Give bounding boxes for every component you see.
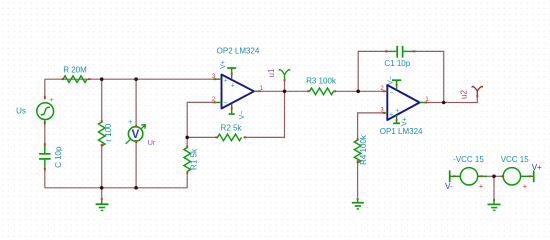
wire OP1 output [426,96,477,103]
svg-text:R4 100k: R4 100k [359,134,368,165]
wire top rail [45,78,215,80]
svg-text:V-: V- [445,182,453,191]
svg-text:−: − [223,100,227,107]
svg-text:V: V [132,129,140,141]
node junction OP2 output [283,90,287,94]
wire R4 to ground [357,161,359,198]
wire VCC rail [487,176,500,198]
probe u2 (output) [459,86,482,99]
wire OP2 output to R3 [260,90,308,92]
svg-text:Ur: Ur [148,138,156,147]
node junction top rail 1 [100,77,104,81]
svg-text:V+: V+ [532,163,542,172]
svg-text:C1 10p: C1 10p [384,59,410,68]
svg-text:-VCC 15: -VCC 15 [453,155,484,164]
svg-text:+: + [389,111,393,118]
wire ground A stem [101,188,103,199]
wire voltmeter branch [135,79,137,188]
source Us (sine source) [16,95,54,125]
svg-text:R1 5k: R1 5k [190,148,199,170]
op-amp OP2 V- power pin [229,104,246,120]
svg-text:V−: V− [239,111,246,120]
wire R3 to OP1 [334,90,383,92]
resistor R2 5k [215,124,246,141]
node junction R1/R2 [185,136,189,140]
capacitor C 10p [39,143,63,170]
svg-text:u1: u1 [267,68,276,77]
op-amp OP1 V+ power pin [393,115,408,126]
wire R2 feedback [187,91,284,137]
op-amp OP2 V+ power pin [220,60,236,78]
resistor r 100 [98,120,113,146]
ground VCC [488,199,501,211]
wire OP1 + input to R4 [358,113,384,139]
svg-text:R3 100k: R3 100k [306,77,337,86]
svg-text:+: + [128,117,133,126]
svg-text:+: + [223,78,227,85]
svg-text:+: + [523,182,528,191]
voltmeter Ur [126,117,156,147]
wire u1 probe stem [284,80,286,92]
source -VCC 15 [445,155,487,191]
node junction VCC middle [492,175,496,179]
capacitor C1 10p [384,46,415,68]
wire left limb [44,79,46,188]
ground A [96,198,109,211]
svg-text:r 100: r 100 [104,123,113,142]
svg-text:R2 5k: R2 5k [221,124,243,133]
wire C1 feedback loop [358,51,444,102]
svg-text:+: + [231,82,235,89]
svg-text:C 10p: C 10p [54,146,63,168]
svg-text:OP2 LM324: OP2 LM324 [217,47,260,56]
op-amp OP2 LM324 [212,47,264,109]
node junction C1 left [356,90,360,94]
wire R1 branch / op-amp inverting input [187,102,214,187]
svg-text:+: + [479,182,484,191]
svg-text:Us: Us [16,106,26,115]
svg-text:u2: u2 [459,90,468,99]
resistor R 20M [62,66,91,83]
resistor R4 100k [354,134,368,165]
resistor R1 5k [184,146,199,174]
node junction top rail 2 [134,77,138,81]
op-amp OP1 V- power pin [388,76,402,89]
svg-text:−: − [389,90,393,97]
svg-text:V−: V− [388,76,395,85]
wire r100 branch [101,79,103,188]
node junction bottom rail 1 [100,186,104,190]
probe u1 [267,68,290,81]
svg-text:+: + [395,108,399,115]
source VCC 15 [500,155,542,191]
svg-text:VCC 15: VCC 15 [501,155,530,164]
node junction C1 right / OP1 output [442,101,446,105]
svg-text:R 20M: R 20M [63,66,87,75]
ground R4 [352,198,364,209]
node junction bottom rail 2 [134,186,138,190]
svg-text:OP1 LM324: OP1 LM324 [380,127,423,136]
svg-text:V+: V+ [402,117,409,126]
resistor R3 100k [306,77,337,95]
wire bottom rail [45,187,187,189]
svg-text:+: + [49,95,54,104]
op-amp OP1 LM324 [380,85,430,136]
svg-text:V+: V+ [220,60,227,69]
